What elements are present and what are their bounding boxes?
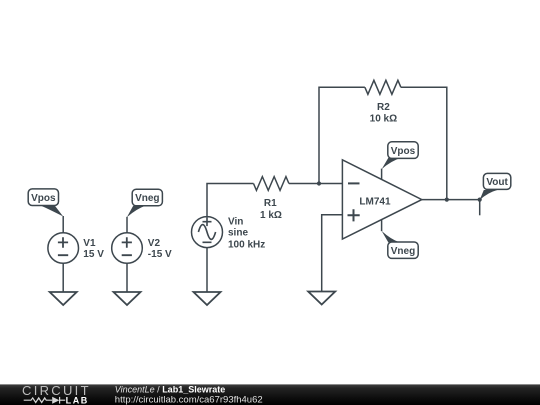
op-amp U1 bottom power pin [381,220,383,232]
wire op-amp output to Vout node [422,199,480,201]
node flag Vneg (at V2) [127,189,162,217]
ground (op-amp non-inverting input) [308,292,335,305]
wire op-amp non-inverting input to ground [322,215,343,292]
svg-text:Vpos: Vpos [391,146,416,157]
ground (V1) [50,292,77,305]
svg-text:R1: R1 [264,198,277,209]
wire Vin top up and right to R1 [207,184,254,217]
svg-text:Vpos: Vpos [31,193,56,204]
svg-text:-15 V: -15 V [148,249,172,260]
svg-text:Vneg: Vneg [135,193,159,204]
svg-text:15 V: 15 V [83,249,104,260]
svg-text:LM741: LM741 [359,196,391,207]
wire V1 flag stem to V1 top [62,216,64,233]
resistor R2 [365,80,401,94]
svg-text:1 kΩ: 1 kΩ [260,210,282,221]
junction node at R1 / feedback [317,181,321,185]
svg-text:V1: V1 [83,238,96,249]
voltage source V2 [112,233,143,264]
node flag Vpos (at V1) [28,189,63,217]
svg-text:R2: R2 [377,102,390,113]
node flag Vpos (at op-amp V+) [382,142,418,169]
voltage source V1 [48,233,79,264]
node flag Vout [480,173,511,200]
wire R2 right and down to output [401,87,447,199]
wire V2 bottom to ground [126,263,128,292]
wire Vout stub down [479,200,481,216]
resistor R1 [254,177,289,191]
wire feedback left vertical and top to R2 [319,87,365,183]
svg-text:sine: sine [228,227,248,238]
footer bar [0,383,540,405]
ground (Vin) [194,292,221,305]
junction node at R2 / output [445,198,449,202]
svg-text:Vin: Vin [228,217,243,228]
op-amp U1 top power pin [381,169,383,180]
logo resistor-diode glyph [24,397,65,404]
wire R1 right to op-amp inverting input [289,183,343,185]
wire V1 bottom to ground [62,263,64,292]
svg-text:LAB: LAB [66,395,89,405]
svg-text:Vneg: Vneg [391,246,415,257]
svg-text:100 kHz: 100 kHz [228,239,265,250]
svg-text:Vout: Vout [486,177,508,188]
wire Vin bottom to ground [206,248,208,293]
wire V2 flag stem to V2 top [126,217,128,233]
sine source Vin [192,217,223,248]
svg-text:http://circuitlab.com/ca67r93f: http://circuitlab.com/ca67r93fh4u62 [115,394,263,405]
svg-text:10 kΩ: 10 kΩ [370,113,397,124]
svg-text:V2: V2 [148,238,161,249]
ground (V2) [114,292,141,305]
svg-text:VincentLe / Lab1_Slewrate: VincentLe / Lab1_Slewrate [115,384,225,394]
junction node at Vout [478,198,482,202]
node flag Vneg (at op-amp V-) [382,231,418,258]
op-amp U1 [342,160,421,239]
